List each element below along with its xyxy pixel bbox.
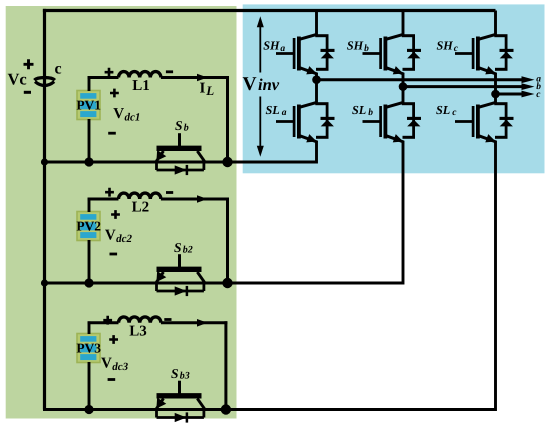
node: L2 output / row 2	[222, 278, 232, 288]
wire inverter leg c bottom	[494, 141, 497, 411]
diode D1 (anti-parallel with Sb)	[155, 161, 158, 170]
PV module PV2	[77, 212, 100, 241]
label + (Vdc1)	[110, 89, 119, 98]
svg-text:b3: b3	[180, 371, 190, 382]
transistor SLa (low-side IGBT)	[276, 120, 294, 123]
node: phase c junction	[491, 90, 500, 99]
label + (L3 input)	[103, 316, 112, 325]
label - (Vc negative)	[24, 91, 31, 94]
wire L1 output drop	[226, 76, 229, 162]
svg-text:V: V	[243, 74, 257, 95]
transistor SHb (high-side IGBT)	[363, 52, 381, 55]
wire PV1 bottom lead	[88, 119, 91, 162]
label - (L2 output)	[166, 191, 173, 194]
wire leg c midpoint	[494, 73, 497, 94]
wire inductor row L1 left	[88, 76, 119, 79]
svg-text:SL: SL	[266, 103, 280, 117]
node: L1 output / row 1	[222, 157, 232, 167]
node: left rail / row 1	[41, 158, 48, 165]
wire inverter leg b bottom	[402, 141, 405, 285]
svg-text:L1: L1	[132, 78, 150, 94]
wire inductor row L2 right	[161, 198, 229, 201]
arrow phase c	[522, 91, 535, 98]
wire PV2 bottom lead	[88, 240, 91, 283]
node: PV1 negative / row 1	[84, 157, 93, 166]
wire phase output c	[496, 93, 524, 96]
svg-text:L: L	[205, 83, 214, 98]
svg-text:c: c	[55, 60, 62, 77]
wire leg a to SL	[315, 80, 318, 103]
svg-text:L2: L2	[132, 200, 150, 216]
svg-text:L3: L3	[129, 324, 147, 340]
svg-text:b2: b2	[183, 245, 193, 256]
node: PV2 negative / row 2	[84, 278, 93, 287]
wire inverter leg b top	[402, 11, 405, 35]
arrow phase a	[522, 76, 535, 83]
svg-text:PV1: PV1	[76, 98, 101, 113]
svg-text:inv: inv	[258, 75, 280, 94]
wire inductor row L3 left	[88, 321, 119, 324]
current arrow on L1 output	[197, 74, 208, 82]
svg-text:SH: SH	[263, 39, 280, 53]
svg-text:SL: SL	[436, 103, 450, 117]
transistor Sb2 (boost IGBT)	[178, 254, 181, 267]
svg-text:SH: SH	[437, 39, 454, 53]
label - (Vdc3)	[108, 378, 116, 381]
transistor Sb (boost IGBT)	[178, 133, 181, 146]
wire PV2 top lead	[88, 198, 91, 212]
node: phase b junction	[399, 82, 408, 91]
wire inverter leg c top	[494, 11, 497, 35]
label - (L1 output)	[166, 70, 173, 73]
blue inverter region	[243, 4, 545, 173]
svg-text:dc2: dc2	[116, 233, 132, 245]
wire L3 output drop	[224, 321, 227, 409]
svg-text:PV3: PV3	[76, 341, 101, 356]
label + (L1 input)	[105, 68, 114, 77]
svg-text:S: S	[175, 118, 183, 133]
svg-text:S: S	[171, 366, 179, 381]
svg-text:S: S	[174, 240, 182, 255]
label + (Vdc3)	[109, 335, 118, 344]
wire leg b to SL	[402, 87, 405, 103]
wire left DC rail	[43, 9, 46, 410]
wire return row 2	[43, 282, 403, 285]
svg-text:V: V	[101, 356, 112, 372]
wire inverter leg a bottom	[315, 141, 318, 164]
transistor Sb3 (boost IGBT)	[178, 381, 181, 394]
wire phase output a	[317, 78, 524, 81]
wire return row 3	[43, 408, 496, 411]
capacitor C curved plate	[35, 82, 54, 86]
transistor SHc (high-side IGBT)	[455, 52, 473, 55]
wire PV3 bottom lead	[88, 362, 91, 410]
diode D3 (anti-parallel with Sb3)	[155, 408, 158, 417]
wire top DC bus	[43, 9, 496, 12]
wire leg a midpoint	[315, 73, 318, 80]
svg-text:b: b	[368, 108, 373, 118]
wire PV3 top lead	[88, 321, 91, 334]
svg-text:SH: SH	[347, 39, 364, 53]
green boost-converter region	[6, 6, 237, 419]
current arrow on L3 output	[197, 319, 208, 327]
wire L2 output drop	[226, 198, 229, 284]
svg-text:Vc: Vc	[8, 70, 27, 89]
svg-text:dc1: dc1	[125, 112, 141, 124]
svg-text:a: a	[282, 108, 287, 118]
wire return row 1	[43, 161, 317, 164]
PV module PV3	[77, 334, 100, 363]
wire inductor row L3 right	[161, 321, 228, 324]
node: L3 output / row 3	[221, 404, 231, 414]
arrow phase b	[522, 83, 535, 90]
current arrow on L2 output	[197, 195, 208, 203]
label - (Vdc1)	[108, 132, 116, 135]
node: PV3 negative / row 3	[84, 405, 93, 414]
svg-text:dc3: dc3	[112, 361, 128, 373]
wire phase output b	[403, 85, 524, 88]
transistor SLb (low-side IGBT)	[363, 120, 381, 123]
Vinv measurement arrow	[259, 24, 261, 73]
label - (Vdc2)	[110, 253, 118, 256]
transistor SLc (low-side IGBT)	[455, 120, 473, 123]
wire inductor row L2 left	[88, 198, 119, 201]
node: left rail / row 2	[41, 279, 48, 286]
svg-text:I: I	[200, 80, 206, 96]
wire leg c to SL	[494, 94, 497, 103]
svg-text:V: V	[113, 106, 124, 122]
wire inductor row L1 right	[161, 76, 229, 79]
svg-text:SL: SL	[352, 103, 366, 117]
capacitor C top plate	[34, 78, 54, 81]
inductor L2 coil	[119, 193, 161, 199]
wire inverter leg a top	[315, 11, 318, 35]
PV module PV1	[77, 91, 100, 120]
label + (Vdc2)	[111, 210, 120, 219]
node: phase a junction	[312, 75, 321, 84]
label + (L2 input)	[105, 188, 114, 197]
corner left rail bottom	[0, 0, 1, 1]
diode D2 (anti-parallel with Sb2)	[155, 282, 158, 291]
svg-text:PV2: PV2	[76, 219, 101, 234]
svg-text:b: b	[184, 123, 189, 134]
transistor SHa (high-side IGBT)	[276, 52, 294, 55]
label + (Vc positive)	[24, 59, 34, 69]
wire PV1 top lead	[88, 76, 91, 91]
label - (L3 output)	[164, 318, 171, 321]
inductor L1 coil	[119, 72, 161, 78]
svg-text:V: V	[105, 228, 116, 244]
wire leg b midpoint	[402, 73, 405, 87]
inductor L3 coil	[119, 317, 161, 323]
